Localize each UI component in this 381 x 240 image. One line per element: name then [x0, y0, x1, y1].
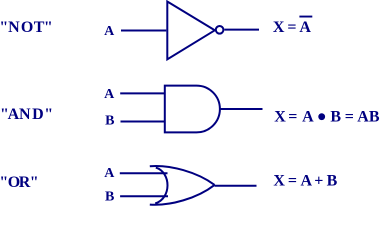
AND gate body	[165, 86, 220, 133]
svg-text:=: =	[345, 109, 354, 126]
svg-text:O: O	[21, 19, 33, 36]
svg-text:B: B	[105, 113, 114, 128]
svg-text:D: D	[32, 106, 44, 123]
svg-text:A: A	[302, 109, 314, 126]
wire: AND gate output X	[220, 108, 262, 110]
svg-text:": "	[44, 19, 53, 36]
svg-text:+: +	[314, 172, 323, 189]
wire: OR gate input B	[120, 195, 168, 197]
wire: NOT gate output X	[224, 29, 259, 31]
label "OR"	[0, 174, 39, 191]
OR gate body top arc	[150, 166, 215, 185]
svg-text:A: A	[104, 87, 115, 102]
OR gate body bottom arc	[150, 185, 215, 205]
wire: OR gate output X	[215, 185, 257, 187]
label "NOT"	[0, 19, 53, 36]
svg-text:AB: AB	[357, 109, 380, 126]
NOT gate inversion bubble	[216, 26, 224, 34]
svg-text:A: A	[8, 106, 20, 123]
svg-text:": "	[0, 19, 8, 36]
equation X = A-bar : overline over A	[299, 16, 312, 18]
wire: AND gate input A	[120, 92, 165, 94]
svg-text:=: =	[288, 109, 297, 126]
svg-text:A: A	[299, 19, 311, 36]
svg-text:A: A	[301, 172, 313, 189]
svg-text:N: N	[19, 106, 31, 123]
equation X = A dot B = AB : bullet dot	[318, 113, 325, 120]
wire: OR gate input A	[120, 172, 168, 174]
svg-text:B: B	[327, 172, 338, 189]
svg-text:=: =	[287, 19, 296, 36]
wire: NOT gate input A	[121, 30, 166, 32]
svg-text:A: A	[104, 166, 115, 181]
svg-text:B: B	[105, 190, 114, 205]
NOT gate (inverter) triangle	[167, 2, 215, 60]
wire: AND gate input B	[121, 121, 165, 123]
label "AND"	[0, 106, 53, 123]
svg-text:A: A	[104, 24, 115, 39]
svg-text:=: =	[288, 172, 297, 189]
svg-text:": "	[30, 174, 39, 191]
svg-text:": "	[44, 106, 53, 123]
svg-text:B: B	[330, 109, 341, 126]
svg-text:X: X	[273, 172, 285, 189]
svg-text:X: X	[273, 19, 285, 36]
OR gate body back (concave) arc	[155, 168, 167, 204]
svg-text:N: N	[8, 19, 20, 36]
svg-text:X: X	[274, 109, 286, 126]
